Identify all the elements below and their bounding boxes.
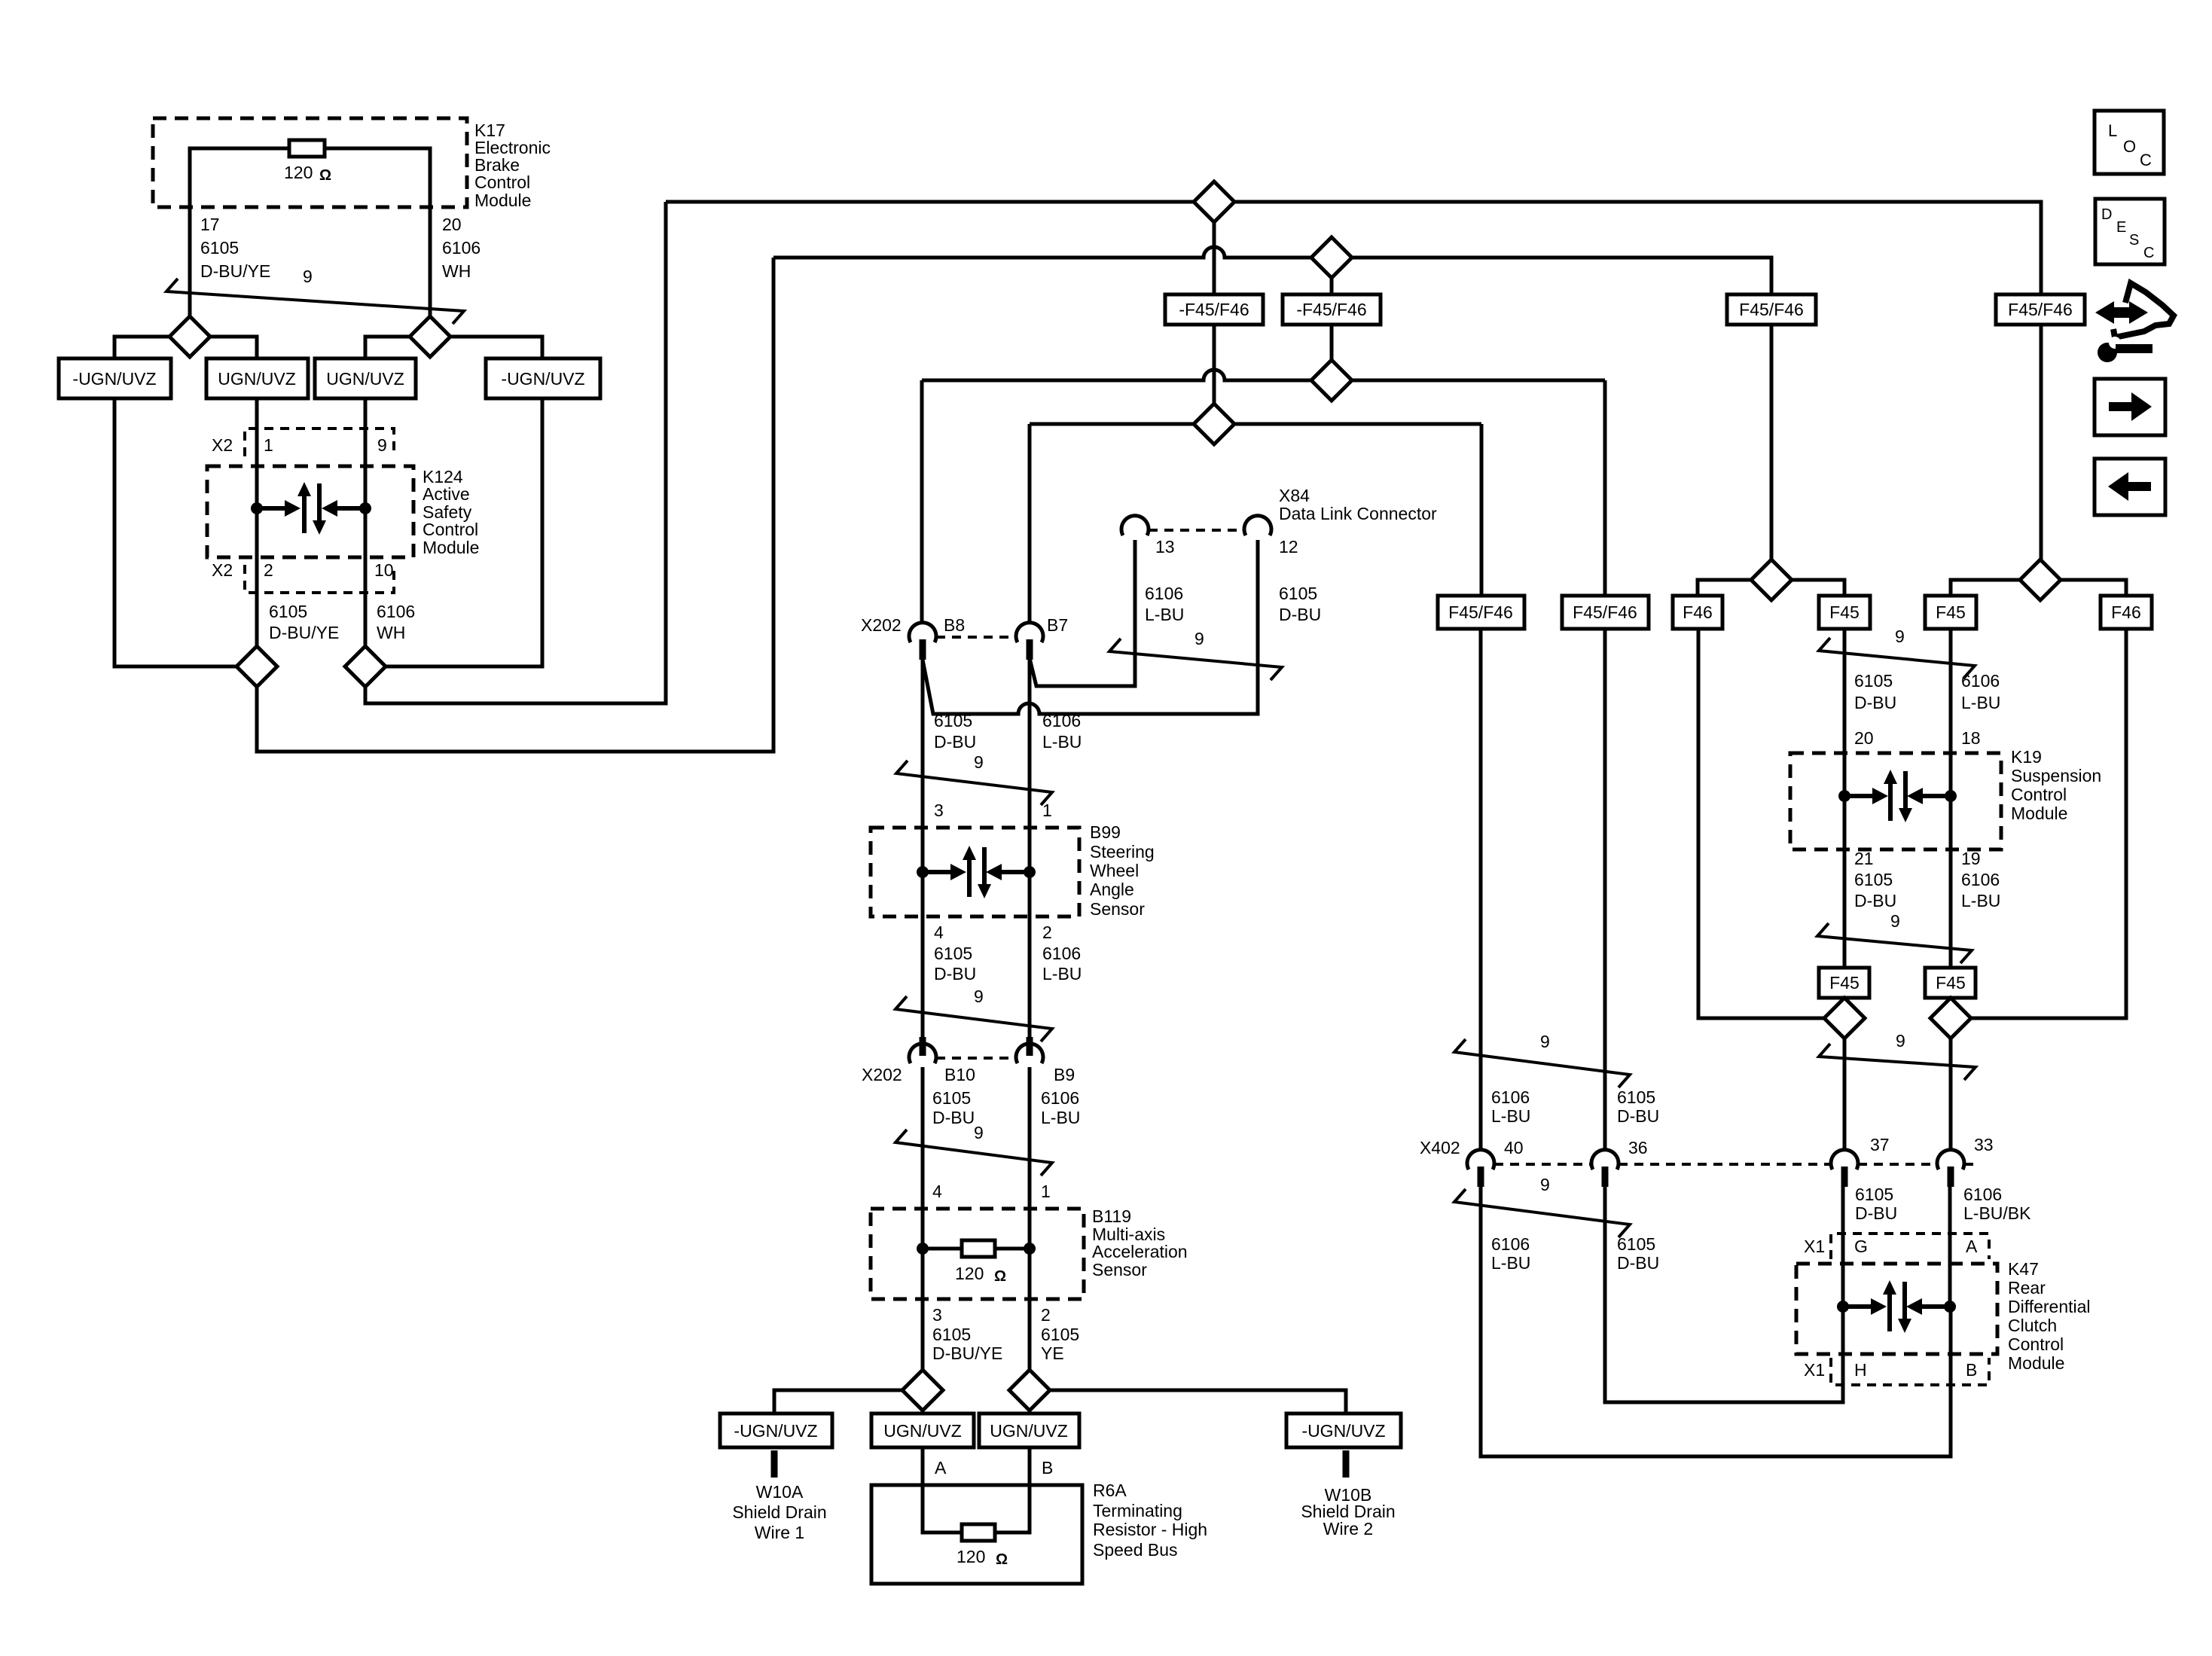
svg-text:F45/F46: F45/F46 — [2008, 300, 2073, 319]
wire S10 down to UGN/UVZ box B — [1028, 1410, 1032, 1414]
splice diamond on line A at x=1612 — [1194, 181, 1234, 222]
cable slash mark 9 below K19 — [1817, 923, 1972, 963]
svg-text:B9: B9 — [1054, 1065, 1075, 1084]
svg-text:2: 2 — [1041, 1305, 1051, 1325]
icon arrow right box — [2095, 379, 2165, 435]
cable slash mark 9 above X402 — [1454, 1039, 1630, 1087]
wire 6106 down through K124 to splice S4 — [364, 398, 368, 646]
connector X84 pin 12 arc — [1244, 516, 1271, 535]
connector X202 lower: pin B9 arc — [1016, 1044, 1043, 1063]
node junction dot B119 right — [1024, 1243, 1036, 1255]
icon DESC box — [2095, 199, 2165, 264]
wire K17 internal resistor loop left leg 6105 — [190, 148, 289, 317]
svg-text:6106: 6106 — [1042, 944, 1081, 963]
wire S9 down to UGN/UVZ box A — [921, 1410, 925, 1414]
connector X1 bottom (dashed staple) — [1831, 1358, 1989, 1385]
wire D5 right arm to F45 — [1792, 580, 1844, 596]
svg-text:Module: Module — [2008, 1353, 2064, 1373]
splice diamond on line D at x=1612 — [1194, 404, 1234, 444]
svg-text:Ω: Ω — [994, 1268, 1006, 1285]
svg-text:6105: 6105 — [1279, 584, 1317, 603]
wire 6105 from F45/F46 down to X402 pin 36 — [1603, 629, 1607, 1151]
svg-text:6106: 6106 — [1145, 584, 1183, 603]
wire shield drain right down to splice S4 — [386, 398, 542, 666]
connector X402 pin 33 arc — [1937, 1150, 1964, 1170]
terminal stub below X402-33 — [1948, 1167, 1954, 1187]
wire vertical from diamond on line A through -F45/F46 to diamond on line D — [1213, 222, 1216, 404]
cable slash mark 9 below diamonds — [1819, 1044, 1976, 1080]
svg-text:Ω: Ω — [319, 167, 331, 184]
wire 6105 jog from B8 to X84 pin 12 with hop over B7 wire — [923, 540, 1258, 714]
svg-text:WH: WH — [377, 623, 405, 642]
wire from F45 down through K19 to diamond (left col) — [1843, 629, 1847, 998]
svg-text:D-BU/YE: D-BU/YE — [200, 261, 270, 281]
svg-text:Differential: Differential — [2008, 1297, 2091, 1316]
svg-text:6105: 6105 — [932, 1088, 971, 1108]
svg-text:R6A: R6A — [1093, 1481, 1127, 1500]
svg-text:-UGN/UVZ: -UGN/UVZ — [72, 369, 156, 389]
svg-text:9: 9 — [377, 435, 387, 455]
svg-text:UGN/UVZ: UGN/UVZ — [883, 1421, 962, 1441]
harness box UGN/UVZ (R6A B) — [979, 1414, 1079, 1447]
harness box UGN/UVZ (K124 pin1 branch) — [206, 358, 308, 398]
svg-text:6105: 6105 — [269, 602, 307, 621]
svg-text:G: G — [1854, 1237, 1868, 1256]
wire B into R6A resistor — [994, 1447, 1030, 1532]
connector X202 upper: pin B8 arc — [909, 623, 936, 642]
splice diamond D9 under F45 — [1824, 998, 1865, 1038]
svg-text:9: 9 — [1896, 1031, 1905, 1051]
svg-text:L-BU/BK: L-BU/BK — [1963, 1203, 2031, 1223]
svg-text:9: 9 — [1890, 911, 1900, 931]
svg-text:D-BU: D-BU — [932, 1108, 975, 1127]
svg-text:B7: B7 — [1047, 615, 1068, 635]
svg-text:Wheel: Wheel — [1090, 861, 1139, 880]
svg-text:Suspension: Suspension — [2011, 766, 2101, 785]
svg-text:Sensor: Sensor — [1090, 899, 1145, 919]
svg-text:9: 9 — [974, 752, 984, 772]
harness box UGN/UVZ (K124 pin9 branch) — [315, 358, 416, 398]
fuse box F46 (far left of row) — [1673, 596, 1722, 629]
wire 6105 from B10 down to B119 — [921, 1067, 925, 1370]
cable slash mark 9 at X84 — [1109, 639, 1282, 680]
cable slash mark 9 under K17 — [166, 279, 464, 324]
icon arrow left box — [2095, 459, 2165, 515]
splice diamond D10 under F45 — [1930, 998, 1971, 1038]
svg-text:18: 18 — [1961, 728, 1981, 748]
wire shield drain left down to splice S3 — [114, 398, 236, 666]
icon diagnostic double arrow — [2095, 301, 2148, 324]
splice diamond D6 feeding F45/F46 — [2020, 560, 2061, 600]
svg-text:Control: Control — [474, 172, 530, 192]
connector X84 dashed line — [1149, 529, 1244, 532]
connector X402 pin 36 arc — [1591, 1150, 1619, 1170]
wire 6105 bus: S3 down, right, up to bus line B — [257, 258, 773, 752]
resistor 120 ohm inside K17 — [289, 140, 325, 157]
wire line D left corner down to X202 B7 — [1028, 424, 1032, 624]
svg-text:A: A — [935, 1458, 947, 1478]
module K19 Suspension Control Module (dashed box) — [1790, 753, 2001, 849]
svg-text:C: C — [2140, 151, 2152, 169]
svg-text:L: L — [2108, 121, 2117, 140]
svg-text:3: 3 — [932, 1305, 942, 1325]
CAN symbol arrows inside B99 — [923, 870, 950, 874]
splice diamond S2 on 6106 under K17 — [410, 316, 450, 357]
node junction dot K47 left — [1837, 1301, 1849, 1313]
svg-text:Module: Module — [2011, 804, 2067, 823]
connector X2 bottom (dashed staple) — [245, 565, 394, 593]
terminal stub above B10 — [920, 1037, 926, 1056]
wire vertical from diamond on line B through -F45/F46 to diamond on line C — [1330, 278, 1334, 360]
cable slash mark 9 below X402 — [1454, 1189, 1630, 1237]
bus line C (6105 to X202-B8) with hop at 1612 — [922, 370, 1605, 380]
wire A down into K47 — [1948, 1187, 1952, 1307]
svg-text:D-BU/YE: D-BU/YE — [932, 1343, 1002, 1363]
resistor 120 ohm inside R6A — [962, 1524, 995, 1541]
svg-text:6106: 6106 — [442, 238, 481, 258]
svg-text:6106: 6106 — [377, 602, 415, 621]
svg-text:6105: 6105 — [934, 711, 972, 730]
svg-text:6105: 6105 — [1855, 1185, 1893, 1204]
icon wrench — [2098, 343, 2117, 362]
connector X202 upper: pin B7 arc — [1016, 623, 1043, 642]
svg-text:K19: K19 — [2011, 747, 2042, 767]
svg-text:B: B — [1966, 1360, 1977, 1380]
cable slash mark 9 below B99 — [895, 996, 1052, 1041]
harness box -UGN/UVZ (right) — [486, 358, 600, 398]
fuse box F45/F46 on line B drop — [1727, 294, 1816, 325]
svg-text:9: 9 — [974, 1123, 984, 1142]
svg-text:D-BU: D-BU — [1854, 891, 1896, 910]
svg-text:6106: 6106 — [1961, 671, 2000, 691]
bus line B (6105) horizontal with hop over vertical at 1612 — [773, 247, 1771, 560]
svg-text:9: 9 — [1194, 629, 1204, 648]
svg-text:17: 17 — [200, 215, 220, 234]
terminal stub below B8 — [920, 639, 926, 660]
svg-text:YE: YE — [1041, 1343, 1064, 1363]
connector X202 lower dashed line — [936, 1057, 1016, 1060]
svg-text:UGN/UVZ: UGN/UVZ — [218, 369, 296, 389]
svg-text:120: 120 — [284, 163, 313, 182]
fuse box -F45/F46 (left) — [1165, 294, 1263, 325]
svg-text:F45: F45 — [1936, 602, 1966, 622]
svg-text:4: 4 — [932, 1182, 942, 1201]
svg-text:2: 2 — [264, 560, 273, 580]
wire D6 left arm to F45 — [1951, 580, 2020, 596]
wire D10 down to X402 pin 33 — [1949, 1038, 1953, 1151]
wire S9 left arm to -UGN/UVZ / W10A — [774, 1390, 902, 1414]
svg-text:H: H — [1854, 1360, 1867, 1380]
svg-text:6105: 6105 — [1854, 671, 1893, 691]
svg-text:Wire 1: Wire 1 — [755, 1523, 804, 1542]
node junction dot K124 right — [359, 502, 371, 514]
wire from F45 down through K19 to diamond (right col) — [1949, 629, 1953, 998]
svg-text:1: 1 — [1042, 801, 1052, 820]
svg-text:36: 36 — [1628, 1138, 1648, 1157]
wire from splice S2 to -UGN/UVZ shield box — [450, 337, 542, 358]
connector X402 dashed line — [1494, 1163, 1977, 1166]
module K47 Rear Differential Clutch Control Module (dashed box) — [1796, 1264, 1997, 1354]
svg-text:6106: 6106 — [1963, 1185, 2002, 1204]
node junction dot B99 right — [1024, 866, 1036, 878]
svg-text:-UGN/UVZ: -UGN/UVZ — [1301, 1421, 1385, 1441]
svg-text:O: O — [2123, 137, 2136, 156]
resistor 120 ohm inside B119 — [962, 1240, 995, 1257]
svg-text:A: A — [1966, 1237, 1978, 1256]
svg-text:-F45/F46: -F45/F46 — [1179, 300, 1249, 319]
svg-text:E: E — [2116, 219, 2126, 236]
wire K17 internal resistor loop right leg 6106 — [325, 148, 430, 317]
svg-text:Resistor - High: Resistor - High — [1093, 1520, 1207, 1539]
svg-text:D-BU: D-BU — [1855, 1203, 1897, 1223]
svg-text:6106: 6106 — [1961, 870, 2000, 889]
icon LOC box — [2095, 111, 2164, 174]
node junction dot K124 left — [251, 502, 263, 514]
svg-text:6105: 6105 — [1041, 1325, 1079, 1344]
CAN symbol arrows inside K19 — [1844, 794, 1872, 798]
svg-text:Wire 2: Wire 2 — [1323, 1519, 1373, 1539]
fuse box F46 (far right) — [2101, 596, 2152, 629]
svg-text:Module: Module — [423, 538, 479, 557]
svg-text:1: 1 — [264, 435, 273, 455]
svg-text:2: 2 — [1042, 923, 1052, 942]
svg-text:120: 120 — [955, 1264, 984, 1283]
svg-text:Speed Bus: Speed Bus — [1093, 1540, 1178, 1560]
fuse box -F45/F46 (right) — [1283, 294, 1381, 325]
harness box -UGN/UVZ (W10A) — [720, 1414, 832, 1447]
svg-text:S: S — [2129, 232, 2139, 249]
bus line A (6106) horizontal top — [666, 202, 2041, 560]
svg-text:X202: X202 — [861, 615, 902, 635]
svg-text:40: 40 — [1504, 1138, 1524, 1157]
harness box -UGN/UVZ (left) — [59, 358, 171, 398]
fuse box F45/F46 (line D branch) — [1438, 596, 1524, 629]
CAN symbol arrows inside K47 — [1843, 1304, 1871, 1309]
node junction dot K47 right — [1944, 1301, 1956, 1313]
svg-text:6105: 6105 — [932, 1325, 971, 1344]
svg-text:Clutch: Clutch — [2008, 1316, 2057, 1335]
svg-text:D-BU: D-BU — [1854, 693, 1896, 712]
svg-text:K47: K47 — [2008, 1259, 2039, 1279]
svg-text:F46: F46 — [1683, 602, 1713, 622]
harness box -UGN/UVZ (W10B) — [1286, 1414, 1401, 1447]
svg-text:9: 9 — [1895, 627, 1905, 646]
svg-text:Rear: Rear — [2008, 1278, 2046, 1298]
wire 6106 jog from B7 to X84 pin 13 — [1030, 540, 1135, 686]
svg-text:X2: X2 — [212, 560, 233, 580]
terminal stub below X402-36 — [1602, 1167, 1609, 1187]
terminal stub W10A — [771, 1450, 778, 1478]
wire G down into K47 — [1841, 1187, 1845, 1307]
svg-text:B: B — [1042, 1458, 1053, 1478]
node junction dot K19 right — [1945, 790, 1957, 802]
svg-text:Terminating: Terminating — [1093, 1501, 1182, 1520]
splice diamond S4 (6106 bus) — [345, 646, 386, 687]
svg-text:3: 3 — [934, 801, 944, 820]
svg-text:-UGN/UVZ: -UGN/UVZ — [734, 1421, 817, 1441]
svg-text:D-BU/YE: D-BU/YE — [269, 623, 339, 642]
svg-text:F45/F46: F45/F46 — [1739, 300, 1804, 319]
svg-text:Angle: Angle — [1090, 880, 1134, 899]
wire 6106 bus: S4 down, right, up to bus line A — [365, 202, 666, 703]
svg-text:C: C — [2143, 245, 2154, 261]
fuse box F45 (lower right) — [1925, 968, 1976, 998]
svg-text:L-BU: L-BU — [1145, 605, 1184, 624]
svg-text:W10A: W10A — [756, 1482, 804, 1502]
svg-text:1: 1 — [1041, 1182, 1051, 1201]
svg-text:21: 21 — [1854, 849, 1874, 868]
terminal stub below X402-37 — [1841, 1167, 1848, 1187]
fuse box F45/F46 (line C branch) — [1562, 596, 1649, 629]
svg-text:6105: 6105 — [1617, 1087, 1655, 1107]
svg-text:B119: B119 — [1092, 1206, 1131, 1226]
svg-text:Module: Module — [474, 191, 531, 210]
svg-text:Shield Drain: Shield Drain — [732, 1502, 826, 1522]
wire 6105 down through K124 to splice S3 — [255, 398, 259, 646]
svg-text:X84: X84 — [1279, 486, 1310, 505]
icon diagnostic outline arrow — [2113, 283, 2174, 337]
svg-text:6105: 6105 — [1854, 870, 1893, 889]
connector X84 pin 13 arc — [1121, 516, 1149, 535]
wire from splice S2 to UGN/UVZ box — [365, 337, 410, 358]
connector X202 upper dashed line — [936, 636, 1016, 639]
svg-text:F46: F46 — [2111, 602, 2141, 622]
module R6A Terminating Resistor box (solid) — [871, 1485, 1082, 1584]
svg-text:X2: X2 — [212, 435, 233, 455]
node junction dot K19 left — [1838, 790, 1850, 802]
svg-text:D-BU: D-BU — [934, 732, 976, 752]
cable slash mark 9 above K19 — [1819, 638, 1975, 679]
connector X202 lower: pin B10 arc — [909, 1044, 936, 1063]
wire D5 left arm to F46 — [1698, 580, 1751, 596]
svg-text:Acceleration: Acceleration — [1092, 1242, 1188, 1261]
wire A into R6A resistor — [923, 1447, 962, 1532]
wire S10 right arm to -UGN/UVZ / W10B — [1050, 1390, 1346, 1414]
svg-text:13: 13 — [1155, 537, 1175, 557]
svg-text:37: 37 — [1870, 1135, 1890, 1154]
fuse box F45 (K19 right feed) — [1925, 596, 1976, 629]
svg-text:UGN/UVZ: UGN/UVZ — [326, 369, 404, 389]
wire D6 right arm to F46 — [2061, 580, 2126, 596]
svg-text:B99: B99 — [1090, 822, 1121, 842]
wire 6105 down from B8 to B99 — [921, 660, 925, 1037]
splice diamond on line B at x=1768 — [1311, 237, 1352, 278]
svg-text:F45: F45 — [1829, 602, 1860, 622]
svg-text:6106: 6106 — [1042, 711, 1081, 730]
svg-text:UGN/UVZ: UGN/UVZ — [990, 1421, 1068, 1441]
svg-text:6106: 6106 — [1491, 1234, 1530, 1254]
svg-text:33: 33 — [1974, 1135, 1994, 1154]
terminal stub below B7 — [1027, 639, 1033, 660]
wire line D right corner down to F45/F46 box — [1480, 424, 1484, 596]
splice diamond S3 (6105 bus) — [236, 646, 277, 687]
svg-text:20: 20 — [442, 215, 462, 234]
svg-text:L-BU: L-BU — [1491, 1106, 1530, 1126]
module B119 Multi-axis Acceleration Sensor (dashed box) — [871, 1209, 1084, 1299]
svg-text:19: 19 — [1961, 849, 1981, 868]
svg-text:Control: Control — [2011, 785, 2067, 804]
cable slash mark 9 above B99 — [896, 761, 1052, 805]
svg-text:B8: B8 — [944, 615, 965, 635]
svg-text:9: 9 — [1540, 1032, 1550, 1051]
connector X1 top (dashed staple) — [1831, 1234, 1989, 1259]
terminal stub below X402-40 — [1478, 1167, 1484, 1187]
svg-text:L-BU: L-BU — [1042, 964, 1082, 984]
svg-text:F45: F45 — [1829, 973, 1860, 993]
cable slash mark 9 above B119 — [895, 1130, 1052, 1176]
harness box UGN/UVZ (R6A A) — [871, 1414, 974, 1447]
connector X402 pin 37 arc — [1831, 1150, 1858, 1170]
svg-text:-F45/F46: -F45/F46 — [1296, 300, 1366, 319]
svg-text:L-BU: L-BU — [1961, 891, 2000, 910]
wire 6106 from B9 down to B119 — [1028, 1067, 1032, 1370]
svg-text:D-BU: D-BU — [1279, 605, 1321, 624]
node junction dot B119 left — [917, 1243, 929, 1255]
svg-text:L-BU: L-BU — [1961, 693, 2000, 712]
connector X402 pin 40 arc — [1467, 1150, 1494, 1170]
svg-text:L-BU: L-BU — [1042, 732, 1082, 752]
svg-text:F45/F46: F45/F46 — [1448, 602, 1513, 622]
svg-text:D-BU: D-BU — [1617, 1106, 1659, 1126]
svg-text:F45: F45 — [1936, 973, 1966, 993]
wire 6106 from F45/F46 down to X402 pin 40 — [1479, 629, 1483, 1151]
svg-text:6105: 6105 — [1617, 1234, 1655, 1254]
wire D9 left arm up to F46 — [1698, 629, 1824, 1018]
fuse box F45/F46 on line A drop — [1996, 294, 2085, 325]
wire 6106 down from B7 to B99 — [1028, 660, 1032, 1037]
wire D10 right arm up to F46 — [1971, 629, 2126, 1018]
svg-text:9: 9 — [303, 267, 313, 286]
wire line C left corner down to X202 B8 — [920, 380, 924, 624]
svg-text:120: 120 — [956, 1547, 985, 1566]
wire line C right corner down to F45/F46 box — [1603, 380, 1607, 596]
svg-text:-UGN/UVZ: -UGN/UVZ — [501, 369, 584, 389]
svg-text:20: 20 — [1854, 728, 1874, 748]
splice diamond D5 feeding F46/F45 — [1751, 560, 1792, 600]
node junction dot B99 left — [917, 866, 929, 878]
svg-text:12: 12 — [1279, 537, 1298, 557]
svg-text:Sensor: Sensor — [1092, 1260, 1147, 1279]
svg-text:9: 9 — [974, 987, 984, 1006]
wire between B119 dots — [923, 1247, 1030, 1251]
wire 6105 D-BU from X402-36 down and right to K47 pin H — [1605, 1187, 1843, 1402]
svg-text:D: D — [2101, 206, 2112, 223]
svg-text:X1: X1 — [1804, 1360, 1825, 1380]
svg-text:6106: 6106 — [1041, 1088, 1079, 1108]
svg-text:9: 9 — [1540, 1175, 1550, 1194]
svg-text:X402: X402 — [1420, 1138, 1460, 1157]
splice diamond S9 (bottom left) — [902, 1370, 943, 1410]
svg-text:4: 4 — [934, 923, 944, 942]
terminal stub above B9 — [1027, 1037, 1033, 1056]
splice diamond S1 on 6105 under K17 — [169, 316, 210, 357]
CAN symbol arrows inside K124 — [257, 506, 285, 511]
wire D9 down to X402 pin 37 — [1843, 1038, 1847, 1151]
splice diamond S10 (bottom right) — [1009, 1370, 1050, 1410]
svg-text:D-BU: D-BU — [934, 964, 976, 984]
module K17 Electronic Brake Control Module (dashed box) — [153, 118, 467, 207]
connector X2 top (dashed staple) — [245, 428, 394, 456]
svg-text:6106: 6106 — [1491, 1087, 1530, 1107]
svg-text:Ω: Ω — [996, 1551, 1008, 1568]
bus line D (6106 to X202-B7) — [1030, 422, 1481, 426]
wire from splice S1 to -UGN/UVZ shield box — [114, 337, 169, 358]
svg-text:Control: Control — [2008, 1334, 2064, 1354]
svg-text:WH: WH — [442, 261, 471, 281]
svg-text:Active: Active — [423, 484, 470, 504]
svg-text:6105: 6105 — [200, 238, 239, 258]
splice diamond on line C at x=1768 — [1311, 360, 1352, 401]
